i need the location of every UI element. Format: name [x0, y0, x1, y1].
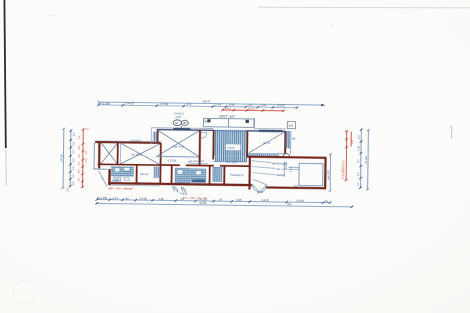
left dim line outer — [62, 128, 65, 189]
svg-text:2-3.4: 2-3.4 — [215, 103, 222, 107]
svg-text:2-4.05: 2-4.05 — [261, 198, 269, 202]
big room bottom line — [156, 155, 199, 158]
svg-text:4-9.05: 4-9.05 — [296, 199, 304, 203]
right room bottom line — [248, 152, 285, 155]
svg-text:2-9.05: 2-9.05 — [277, 104, 285, 108]
wall label dark — [173, 128, 190, 131]
interior wall vertical — [117, 142, 119, 164]
room X small left — [101, 143, 118, 164]
bathroom fixtures mid 2 — [191, 169, 206, 183]
bottom dim line 1 — [96, 200, 329, 203]
dim seg labels top — [100, 101, 285, 108]
faint arc bottom left — [13, 280, 35, 304]
svg-text:29er·9.05: 29er·9.05 — [172, 144, 184, 148]
svg-text:2'-4.03: 2'-4.03 — [125, 101, 134, 105]
svg-text:2-4: 2-4 — [218, 198, 222, 202]
svg-text:9'-0: 9'-0 — [187, 102, 192, 106]
svg-text:2er·9.0h: 2er·9.0h — [131, 153, 142, 157]
bottom outer line — [110, 184, 160, 187]
scanner edge line left — [4, 0, 5, 148]
garage right wall — [324, 158, 327, 189]
faint mark right — [450, 127, 453, 140]
deck lower hatch — [215, 156, 247, 162]
entry step edge — [93, 168, 108, 170]
big room outer corner line — [150, 128, 152, 144]
red dim line top — [222, 109, 283, 112]
svg-text:2-0: 2-0 — [66, 187, 69, 191]
wall label dark right — [259, 130, 283, 133]
blue dim right outer — [366, 129, 369, 190]
garage door arcs — [252, 184, 259, 191]
svg-text:4·02: 4·02 — [175, 115, 181, 119]
svg-text:2-4.0: 2-4.0 — [112, 196, 119, 200]
porch column right — [245, 120, 249, 123]
entry steps fan left — [172, 187, 178, 193]
right room diagonal — [249, 132, 285, 154]
WD box — [287, 122, 295, 129]
porch column left — [207, 119, 210, 122]
svg-text:4-2.03: 4-2.03 — [199, 197, 207, 201]
entry door swing — [101, 178, 105, 183]
garage inner dim — [288, 166, 299, 168]
svg-text:4-05: 4-05 — [357, 146, 360, 151]
svg-text:4-05: 4-05 — [158, 197, 164, 201]
deck hatch — [214, 130, 247, 156]
deck left wall — [212, 130, 214, 160]
bottom dim labels 1 — [97, 196, 328, 203]
left red dim line — [81, 129, 84, 187]
garage bottom wall — [266, 186, 326, 189]
svg-text:4-9: 4-9 — [287, 202, 291, 206]
svg-text:gar·9.05: gar·9.05 — [327, 170, 330, 180]
entry steps fan right — [181, 187, 186, 192]
bathroom fixtures left — [111, 166, 134, 177]
svg-text:2'-4.03: 2'-4.03 — [160, 102, 169, 106]
svg-text:2-4: 2-4 — [180, 197, 184, 201]
svg-text:acr: acr — [276, 167, 280, 171]
room X wide — [120, 143, 160, 164]
right room right wall — [284, 131, 286, 154]
outer line right of garage — [329, 153, 332, 192]
fixtures small below — [114, 177, 121, 181]
porch divider — [227, 119, 229, 127]
svg-text:2-0.4: 2-0.4 — [290, 166, 293, 172]
faint dot — [331, 24, 333, 26]
svg-text:4B: 4B — [292, 137, 295, 141]
svg-text:9x0·2m: 9x0·2m — [140, 173, 148, 176]
svg-text:34-06: 34-06 — [199, 201, 206, 205]
bathroom left wall — [108, 169, 111, 185]
small fixtures near bottom wall — [113, 180, 117, 182]
big room X — [157, 130, 199, 157]
paper edge line top right — [258, 6, 470, 9]
porch outline — [203, 118, 254, 127]
svg-text:4g-2.03A: 4g-2.03A — [97, 196, 108, 200]
svg-text:34'-0": 34'-0" — [203, 99, 211, 103]
hall top wall — [161, 164, 180, 166]
deck right wall — [246, 131, 248, 157]
eave line above right room — [254, 128, 285, 130]
svg-text:gen - cas : agesgn: gen - cas : agesgn — [108, 186, 133, 190]
hatch strip below right room — [248, 154, 279, 157]
svg-text:9B: 9B — [183, 121, 186, 125]
svg-text:9A: 9A — [175, 121, 178, 125]
garage top wall — [246, 157, 326, 158]
big room left wall — [157, 130, 159, 143]
top wall left block — [95, 140, 160, 143]
bottom dim line 2 — [96, 203, 351, 206]
svg-text:Passage·9: Passage·9 — [230, 173, 243, 177]
narrow stairs right — [286, 131, 290, 148]
deck label box — [226, 144, 241, 151]
svg-text:4'-2.03A: 4'-2.03A — [100, 101, 111, 105]
entry door leaf — [98, 171, 107, 187]
svg-text:ad2tkrn: ad2tkrn — [276, 173, 286, 177]
blue dim right inner — [359, 130, 362, 188]
hatch block top — [153, 132, 157, 142]
balloon on strip — [283, 154, 289, 158]
svg-text:gar·te: gar·te — [263, 141, 271, 145]
garage inner rect — [299, 163, 323, 185]
svg-text:4·2.03a: 4·2.03a — [167, 159, 176, 162]
left exterior wall — [98, 141, 101, 168]
big room right wall — [199, 130, 201, 166]
stairs lower — [212, 167, 222, 182]
bath mid wall left — [171, 165, 173, 184]
bottom wall left-center — [108, 183, 251, 185]
svg-text:24'-09: 24'-09 — [59, 154, 63, 162]
svg-text:2-4.05: 2-4.05 — [139, 196, 147, 200]
big room top eave line — [151, 127, 213, 130]
dim line overall top — [98, 102, 323, 105]
dim ticks top — [97, 104, 298, 109]
right room top wall — [247, 130, 285, 133]
stairs wall right — [223, 166, 225, 185]
big room top wall — [157, 129, 214, 132]
red dim right — [345, 131, 348, 180]
mid wall horizontal — [98, 163, 161, 166]
porch right side line — [253, 118, 255, 128]
svg-text:gar·9: gar·9 — [257, 190, 264, 194]
svg-text:add·Dseogam: add·Dseogam — [188, 159, 204, 163]
svg-text:2-4.0: 2-4.0 — [249, 107, 256, 111]
svg-text:2-R-6BVV2-9: 2-R-6BVV2-9 — [341, 160, 345, 179]
label balloons — [173, 120, 181, 126]
bath mid wall right — [208, 166, 210, 185]
corridor door swing — [201, 133, 207, 139]
svg-text:2-6: 2-6 — [248, 103, 253, 107]
right wall of left block — [159, 143, 162, 184]
interior wall vertical 2 — [136, 165, 138, 184]
outer face line left — [93, 142, 95, 169]
svg-text:9.915: 9.915 — [227, 146, 235, 150]
svg-text:W9: W9 — [288, 123, 293, 127]
dim line segments top — [98, 105, 297, 108]
svg-text:24'-09: 24'-09 — [364, 156, 368, 164]
passage right wall / garage left wall — [248, 157, 251, 190]
svg-text:2-4.0: 2-4.0 — [225, 106, 232, 110]
deck top line — [214, 130, 248, 132]
left dim line ticks — [69, 131, 72, 187]
svg-text:4-R: 4-R — [351, 140, 354, 144]
svg-text:2-04: 2-04 — [261, 103, 267, 107]
svg-text:4B: 4B — [204, 119, 207, 123]
hatch area B — [154, 167, 161, 178]
svg-text:2-4.03+4: 2-4.03+4 — [130, 139, 141, 143]
svg-text:4-05: 4-05 — [236, 198, 242, 202]
svg-text:add·Deogam: add·Deogam — [272, 161, 288, 165]
bathroom fixtures mid 1 — [175, 168, 190, 183]
leader lines — [251, 161, 299, 186]
